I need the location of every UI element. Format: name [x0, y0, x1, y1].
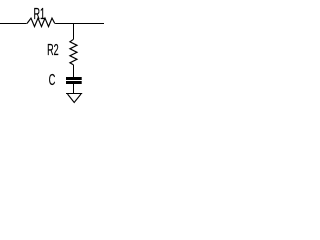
capacitor C plate bottom — [66, 81, 82, 84]
svg-text:R1: R1 — [34, 4, 46, 22]
capacitor C plate top — [66, 77, 82, 80]
resistor R2 — [70, 39, 77, 65]
wire junction lead — [73, 24, 75, 40]
wire stub to ground — [73, 84, 75, 93]
svg-text:C: C — [49, 70, 56, 88]
resistor R1 — [27, 15, 55, 32]
wire lead to capacitor — [73, 65, 75, 77]
wire — [0, 23, 104, 25]
svg-text:R2: R2 — [47, 40, 59, 58]
ground — [66, 94, 82, 103]
